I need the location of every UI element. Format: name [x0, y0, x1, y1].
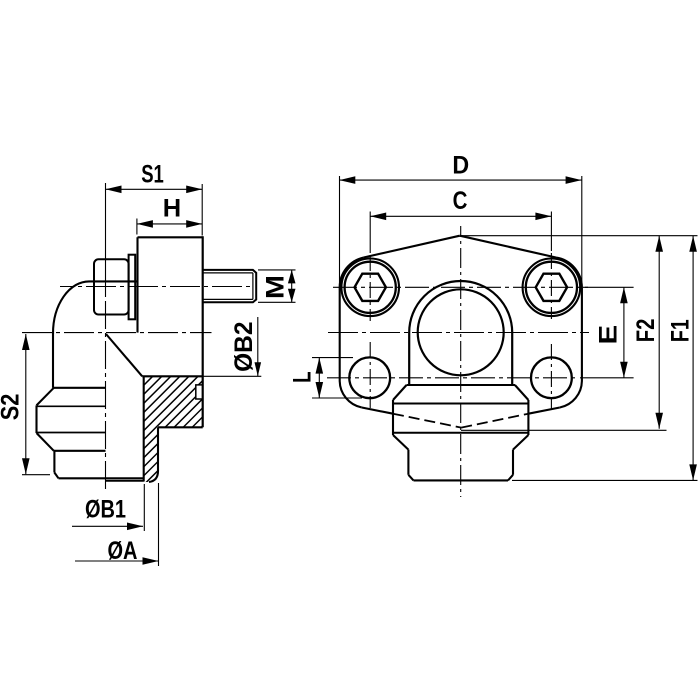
- lower cylinder right edge: [512, 450, 514, 475]
- hex top-right chamfer: [515, 385, 529, 400]
- top-left screw head circle: [345, 262, 396, 313]
- svg-text:S1: S1: [141, 160, 164, 188]
- flange left edge: [340, 258, 364, 408]
- svg-text:D: D: [452, 152, 469, 180]
- top-right bolt boss circle: [523, 259, 581, 317]
- svg-text:ØA: ØA: [108, 537, 138, 565]
- lower-left bolt hole: [349, 357, 390, 398]
- svg-text:E: E: [593, 325, 621, 345]
- top-right screw head circle: [526, 262, 577, 313]
- cone transition diagonal: [106, 334, 142, 376]
- screw head: [94, 259, 129, 314]
- cylinder bottom-left chamfer: [408, 475, 413, 481]
- thread relief notch (white): [196, 385, 203, 399]
- top bolts centerline: [333, 286, 588, 288]
- hidden flange edge dashed right: [461, 414, 528, 428]
- lower-right hole vertical centerline: [550, 344, 552, 410]
- flange face edge: [202, 236, 204, 427]
- lower cylinder left edge: [407, 450, 409, 475]
- top stud outline: [203, 270, 257, 302]
- bottom holes centerline: [327, 377, 576, 379]
- hex bottom-right chamfer: [513, 435, 528, 450]
- bottom face edge: [414, 479, 509, 481]
- hex top chamfer: [37, 388, 54, 406]
- centerline transverse axis: [22, 332, 212, 334]
- roof left line: [364, 236, 460, 258]
- top-right socket hexagon: [536, 274, 567, 301]
- bottom outline solid right: [528, 408, 559, 414]
- section column right edge with rounded end: [149, 427, 158, 482]
- S1 extension line at axis: [105, 183, 107, 297]
- svg-text:S2: S2: [0, 394, 24, 421]
- hex band top line: [37, 405, 106, 407]
- body left edge: [136, 237, 138, 332]
- stud left edge: [53, 451, 55, 473]
- svg-text:M: M: [261, 275, 289, 299]
- hex right edge: [527, 400, 529, 435]
- hex top-left chamfer: [393, 385, 407, 400]
- svg-text:C: C: [453, 186, 468, 214]
- dimension C: [370, 212, 551, 254]
- elbow left edge: [52, 333, 54, 388]
- flange right edge: [556, 258, 582, 408]
- bottom face: [59, 477, 144, 479]
- hidden flange edge dashed left: [393, 414, 461, 428]
- hex bottom edge: [54, 450, 106, 452]
- dimension H: [137, 219, 202, 235]
- svg-text:F2: F2: [631, 319, 660, 343]
- svg-text:H: H: [163, 195, 181, 223]
- vertical centerline: [460, 226, 462, 497]
- hex bottom chamfer: [37, 433, 54, 451]
- shoulder edge: [53, 387, 106, 389]
- elbow silhouette top line: [89, 280, 138, 282]
- svg-text:L: L: [288, 371, 316, 382]
- dimension B2 leader: [203, 317, 262, 376]
- elbow outer arc: [53, 281, 89, 333]
- centerline horizontal port axis: [60, 286, 251, 288]
- stud bottom chamfer: [54, 473, 58, 479]
- horizontal bore centerline: [328, 332, 589, 334]
- bore end chamfer line: [106, 480, 144, 482]
- hatch section fill: [28, 368, 315, 492]
- section top edge: [142, 375, 203, 377]
- section left edge: [143, 376, 145, 481]
- hex band bottom line: [37, 432, 106, 434]
- hex chamfer base line: [393, 403, 528, 405]
- lower-left hole vertical centerline: [369, 342, 371, 408]
- svg-text:ØB2: ØB2: [231, 322, 258, 372]
- top-left socket hexagon: [355, 274, 386, 301]
- dimension F2: [461, 236, 667, 431]
- dimension S2: [22, 334, 50, 475]
- dimension B1: [72, 484, 144, 531]
- dimension E: [580, 287, 634, 378]
- top-right bolt vertical centerline: [550, 253, 552, 319]
- hex lower band line: [393, 432, 528, 434]
- svg-text:F1: F1: [666, 319, 694, 342]
- centerline vertical port axis: [105, 301, 107, 490]
- lower-right bolt hole: [531, 357, 572, 398]
- hex top edge: [407, 384, 516, 386]
- cylinder bottom-right chamfer: [508, 475, 513, 481]
- roof right line: [460, 236, 556, 258]
- top stud thread minor lines: [203, 273, 253, 300]
- top-left bolt vertical centerline: [369, 255, 371, 321]
- svg-text:ØB1: ØB1: [85, 496, 126, 524]
- dimension F1: [462, 236, 698, 481]
- dimension M: [258, 270, 296, 302]
- screw washer: [129, 255, 136, 320]
- hex left edge: [392, 400, 394, 435]
- bottom outline solid left: [362, 408, 393, 414]
- top-left bolt boss circle: [341, 259, 399, 317]
- hex left face: [35, 405, 37, 433]
- dimension A: [75, 483, 159, 566]
- central bore circle: [418, 289, 504, 375]
- dimension D: [339, 176, 582, 290]
- dimension L: [312, 358, 362, 398]
- body top edge: [138, 236, 203, 238]
- central boss arch: [409, 281, 512, 385]
- hex bottom-left chamfer: [393, 435, 408, 450]
- dimension S1: [106, 184, 203, 236]
- section step edge: [158, 426, 203, 428]
